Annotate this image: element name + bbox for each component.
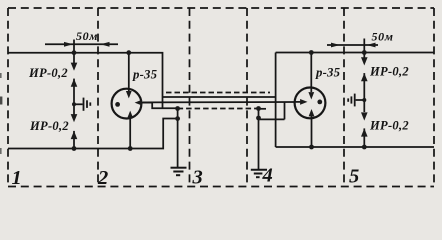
svg-text:5: 5 xyxy=(349,166,359,188)
arrowhead: left spark FV2 down xyxy=(71,114,78,122)
svg-text:4: 4 xyxy=(262,165,273,187)
spark gap FV1 wire (left, upper) xyxy=(73,53,75,64)
svg-text:р-35: р-35 xyxy=(315,66,341,80)
U2 pin 2 wire (bottom) xyxy=(311,116,313,147)
arrowhead: U1 pin2 into body xyxy=(127,111,133,118)
arrowhead: right dim left-pointing xyxy=(367,43,376,48)
arrowhead: right dim right-pointing xyxy=(331,43,340,48)
arrowhead: U1 pin1 into body xyxy=(126,91,132,98)
wire: bottom-right bus xyxy=(276,146,434,148)
junction node: bottom-left bus / spark wire xyxy=(72,146,77,151)
svg-text:ИР-0,2: ИР-0,2 xyxy=(28,66,68,80)
junction node: right spark midpoint xyxy=(362,98,366,102)
arrowhead: right spark FV4 up xyxy=(361,128,368,136)
arrowhead: left spark FV1 up xyxy=(71,79,78,87)
junction node: left earth lower xyxy=(175,116,180,121)
junction node: bottom-right bus / spark wire xyxy=(362,145,367,150)
svg-text:ИР-0,2: ИР-0,2 xyxy=(29,119,69,133)
svg-text:1: 1 xyxy=(12,167,22,189)
section divider 3/4 xyxy=(246,8,248,187)
junction node: left bus / U1 pin1 xyxy=(126,50,131,55)
wire: right elbow to ground node xyxy=(284,102,286,119)
junction node: left earth upper xyxy=(175,106,180,111)
ground (earth) symbol 3 xyxy=(171,168,187,176)
arrowhead: right spark FV3 down xyxy=(361,57,368,65)
arrowhead: U1 pin3 into body xyxy=(135,100,142,106)
wire: line conductor L1 (dashed route) xyxy=(166,92,270,94)
U2 pin 3 shaft (left) xyxy=(294,101,301,103)
dimension line 50m (left) xyxy=(45,43,118,45)
spark gap FV2 wire (left, lower) xyxy=(73,104,75,115)
svg-text:ИР-0,2: ИР-0,2 xyxy=(369,65,409,79)
junction node: left bus / spark wire xyxy=(72,50,77,55)
U1 pin 3 wire stub (right) xyxy=(141,102,152,104)
section divider 4/5 xyxy=(343,8,345,187)
arrowhead: left dim left-pointing xyxy=(101,42,110,47)
junction node: right bus / spark wire xyxy=(362,50,367,55)
ground (earth) symbol 4 xyxy=(251,170,267,178)
boundary frame (dashed) xyxy=(8,8,434,187)
U1 index pin dot xyxy=(115,102,120,107)
wire: line conductor L2 xyxy=(163,96,276,98)
svg-text:50м: 50м xyxy=(76,29,98,43)
connector U1 P-35 body (left) xyxy=(112,89,142,119)
arrowhead: U2 pin1 into body xyxy=(308,92,314,99)
arrowhead: U2 pin3 into body xyxy=(300,99,307,105)
svg-text:50м: 50м xyxy=(372,30,394,44)
junction node: right bus / U2 pin1 xyxy=(309,50,314,55)
dimension line 50m (right) xyxy=(327,44,378,46)
U1 pin 2 wire (bottom) xyxy=(129,118,131,149)
arrowhead: right spark FV4 down xyxy=(361,112,368,120)
U2 pin 1 wire (top) xyxy=(310,53,312,93)
spark gap FV4 wire (right, lower) xyxy=(363,100,365,112)
svg-text:р-35: р-35 xyxy=(132,68,158,82)
wire: line conductor L4 (dashed route) xyxy=(178,108,259,110)
svg-text:2: 2 xyxy=(97,167,108,189)
junction node: right earth upper xyxy=(256,106,261,111)
junction node: bottom-right bus / U2 pin2 xyxy=(309,145,314,150)
U1 pin 1 wire (top) xyxy=(128,53,130,93)
junction node: bottom-left bus / U1 pin2 xyxy=(128,146,133,151)
junction node: right earth lower xyxy=(256,116,261,121)
section divider 2/3 xyxy=(189,8,191,187)
arrowhead: left spark FV2 up xyxy=(71,131,78,139)
section divider 1/2 xyxy=(97,8,99,187)
wire: line conductor L3 (pin-to-pin) xyxy=(143,101,295,103)
scan artifact marks at page edge xyxy=(0,97,2,105)
arrowhead: U2 pin2 into body xyxy=(309,109,315,116)
wire: left earth lead xyxy=(177,109,179,168)
svg-text:3: 3 xyxy=(192,167,203,189)
earth (rotated) at left spark-gap midpoint xyxy=(74,103,83,105)
arrowhead: left spark FV1 down xyxy=(71,63,78,71)
svg-text:ИР-0,2: ИР-0,2 xyxy=(369,119,409,133)
U2 index pin dot xyxy=(317,100,322,105)
wire: right earth lead xyxy=(258,109,260,170)
junction node: left spark midpoint xyxy=(72,102,76,106)
dimension extension tick (left wire) xyxy=(73,40,75,53)
wire: bottom-left bus xyxy=(8,119,178,149)
wire: top-right bus xyxy=(276,52,434,54)
earth (rotated) at right spark-gap midpoint xyxy=(356,99,365,101)
wire: top-left bus xyxy=(8,53,163,108)
connector U2 P-35 body (right) xyxy=(295,88,326,119)
arrowhead: right spark FV3 up xyxy=(361,73,368,81)
wire: left elbow to ground node xyxy=(152,102,177,108)
spark gap FV3 wire (right, upper) xyxy=(363,53,365,59)
arrowhead: left dim right-pointing xyxy=(64,42,73,47)
dimension extension tick (right wire) xyxy=(363,39,365,53)
